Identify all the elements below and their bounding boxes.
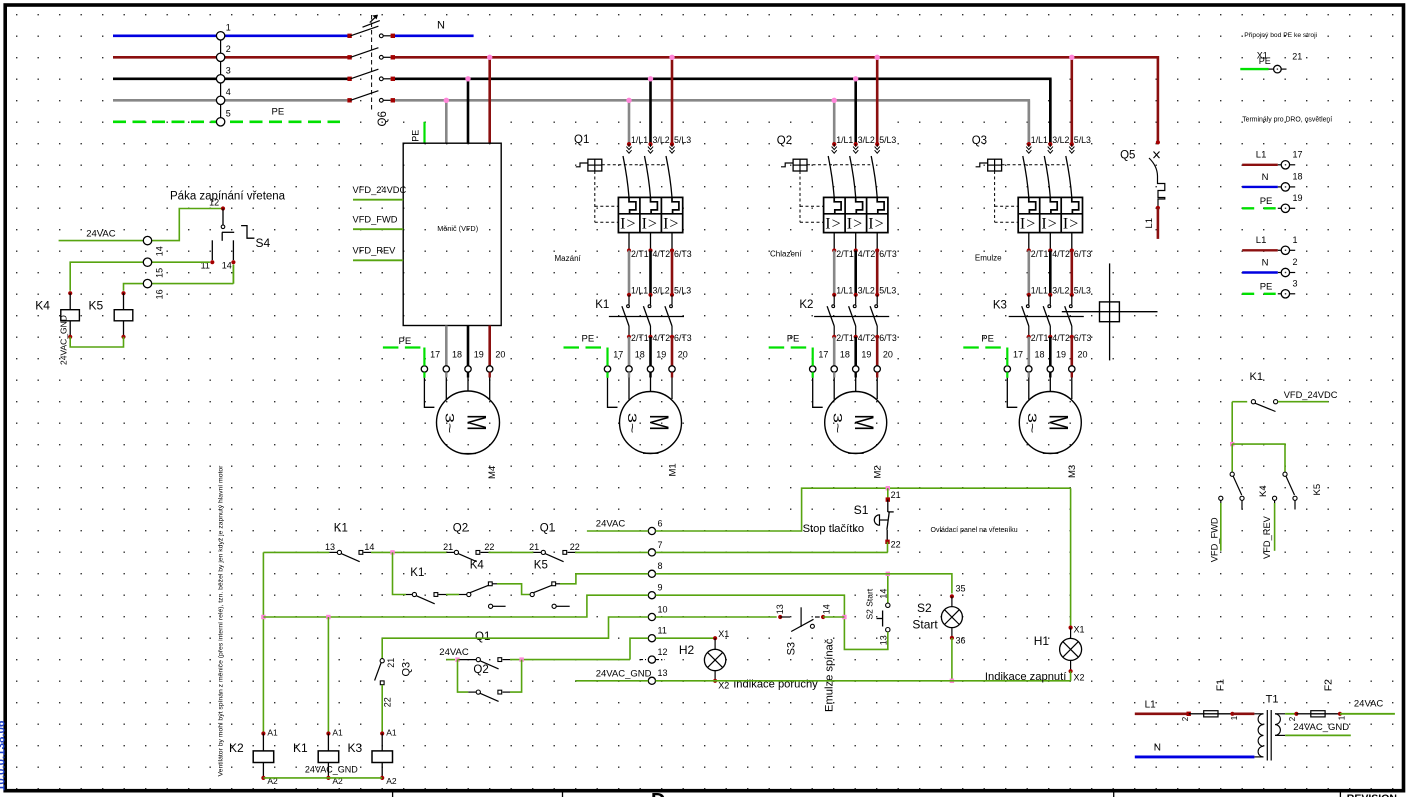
- svg-text:PE: PE: [411, 130, 421, 142]
- svg-text:14: 14: [154, 246, 164, 256]
- svg-text:24VAC_GND: 24VAC_GND: [1293, 722, 1349, 733]
- svg-text:H2: H2: [679, 643, 695, 657]
- svg-text:13: 13: [658, 668, 668, 678]
- svg-text:Páka zapínání vřetena: Páka zapínání vřetena: [170, 191, 286, 203]
- svg-text:Q2: Q2: [453, 523, 468, 535]
- svg-text:14: 14: [878, 589, 888, 599]
- svg-text:Q5: Q5: [1120, 150, 1135, 162]
- svg-text:F1: F1: [1215, 679, 1227, 691]
- svg-text:Q1: Q1: [540, 523, 555, 535]
- svg-text:K4: K4: [35, 299, 50, 313]
- svg-text:Mazání: Mazání: [555, 254, 582, 263]
- svg-text:24VAC_GND: 24VAC_GND: [596, 668, 652, 679]
- svg-text:N: N: [437, 20, 445, 32]
- svg-text:7: 7: [658, 540, 663, 550]
- svg-text:REVISION: REVISION: [1347, 793, 1397, 797]
- svg-text:VFD_REV: VFD_REV: [1262, 515, 1272, 559]
- svg-text:VFD_FWD: VFD_FWD: [1210, 517, 1220, 562]
- svg-text:L1: L1: [1256, 150, 1267, 161]
- svg-text:M2: M2: [873, 465, 884, 478]
- svg-text:PE: PE: [1260, 281, 1273, 292]
- svg-text:T1: T1: [1266, 694, 1279, 706]
- svg-text:K5: K5: [89, 299, 104, 313]
- svg-text:35: 35: [956, 584, 966, 594]
- svg-text:PE: PE: [399, 336, 412, 347]
- svg-text:K3: K3: [348, 741, 363, 755]
- svg-text:Start: Start: [912, 617, 938, 631]
- svg-text:24VAC: 24VAC: [596, 518, 626, 529]
- svg-text:Emulze spínač: Emulze spínač: [824, 638, 836, 712]
- svg-text:4: 4: [226, 87, 231, 97]
- svg-text:13: 13: [325, 542, 335, 552]
- svg-text:14: 14: [822, 604, 832, 614]
- svg-text:Q6: Q6: [377, 111, 389, 126]
- svg-text:1: 1: [1293, 235, 1298, 245]
- svg-text:K3: K3: [993, 300, 1007, 312]
- svg-text:22: 22: [383, 697, 393, 707]
- svg-text:11: 11: [658, 626, 667, 636]
- svg-text:1: 1: [226, 23, 231, 33]
- svg-text:S2: S2: [917, 601, 932, 615]
- svg-text:N: N: [1262, 257, 1269, 268]
- svg-text:M3: M3: [1067, 465, 1078, 478]
- svg-text:2: 2: [1293, 257, 1298, 267]
- svg-text:10.0.0.138.06: 10.0.0.138.06: [0, 721, 7, 791]
- svg-text:Q1: Q1: [475, 631, 490, 643]
- svg-text:1: 1: [1230, 715, 1239, 720]
- svg-text:S2 Start: S2 Start: [865, 588, 875, 619]
- svg-text:22: 22: [891, 540, 901, 550]
- svg-text:K2: K2: [229, 741, 244, 755]
- svg-text:17: 17: [1293, 150, 1303, 160]
- svg-text:Chlazení: Chlazení: [770, 250, 802, 259]
- svg-text:18: 18: [1293, 172, 1303, 182]
- svg-text:21: 21: [891, 490, 901, 500]
- svg-text:A1: A1: [267, 728, 278, 738]
- svg-text:9: 9: [658, 583, 663, 593]
- svg-text:S4: S4: [256, 236, 271, 250]
- svg-text:21: 21: [386, 658, 396, 668]
- svg-text:24VAC: 24VAC: [1354, 699, 1384, 710]
- svg-text:VFD_24VDC: VFD_24VDC: [1284, 390, 1338, 400]
- svg-text:Terminály pro DRO, osvětlení: Terminály pro DRO, osvětlení: [1242, 117, 1332, 124]
- svg-text:L1: L1: [1256, 235, 1267, 246]
- svg-text:M4: M4: [487, 466, 498, 479]
- svg-text:19: 19: [1293, 193, 1303, 203]
- svg-text:F2: F2: [1322, 679, 1334, 691]
- svg-text:Emulze: Emulze: [975, 254, 1002, 263]
- svg-text:M: M: [461, 414, 491, 431]
- svg-text:12: 12: [209, 198, 219, 208]
- svg-text:K2: K2: [799, 299, 813, 311]
- svg-text:K1: K1: [293, 741, 308, 755]
- svg-text:L1: L1: [1144, 218, 1155, 229]
- svg-text:M1: M1: [667, 463, 678, 476]
- svg-text:Měnič (VFD): Měnič (VFD): [437, 224, 478, 233]
- svg-text:K5: K5: [1312, 484, 1323, 496]
- svg-text:8: 8: [658, 561, 663, 571]
- svg-text:18: 18: [452, 350, 462, 360]
- svg-text:K4: K4: [1258, 485, 1269, 497]
- svg-text:K1: K1: [595, 299, 609, 311]
- svg-text:H1: H1: [1034, 634, 1050, 648]
- svg-text:21: 21: [1292, 52, 1302, 62]
- svg-text:21: 21: [443, 542, 453, 552]
- svg-text:N: N: [1154, 743, 1161, 754]
- svg-text:X1: X1: [1074, 624, 1085, 634]
- svg-text:PE: PE: [272, 107, 285, 118]
- svg-text:X2: X2: [718, 681, 729, 691]
- svg-text:A2: A2: [386, 776, 397, 786]
- svg-text:Q2: Q2: [777, 135, 792, 147]
- svg-text:22: 22: [570, 542, 580, 552]
- svg-text:10: 10: [658, 604, 668, 614]
- svg-text:N: N: [1262, 172, 1269, 183]
- svg-text:A1: A1: [386, 728, 397, 738]
- svg-text:VFD_REV: VFD_REV: [353, 246, 397, 256]
- svg-text:A1: A1: [332, 728, 343, 738]
- svg-text:Q3: Q3: [972, 135, 987, 147]
- svg-text:2: 2: [226, 44, 231, 54]
- svg-text:24VAC_GND: 24VAC_GND: [59, 315, 69, 365]
- svg-text:24VAC: 24VAC: [86, 229, 116, 240]
- svg-text:Ovládací panel na vřeteníku: Ovládací panel na vřeteníku: [931, 527, 1018, 534]
- svg-text:3: 3: [226, 66, 231, 76]
- svg-text:13: 13: [878, 635, 888, 645]
- svg-text:17: 17: [430, 350, 440, 360]
- svg-text:K1: K1: [410, 567, 424, 579]
- svg-text:K4: K4: [470, 560, 485, 572]
- svg-text:3: 3: [1293, 279, 1298, 289]
- svg-text:K5: K5: [534, 560, 548, 572]
- svg-text:2: 2: [1288, 716, 1297, 721]
- svg-text:S1: S1: [854, 503, 869, 517]
- svg-text:Připojný bod PE ke stroji: Připojný bod PE ke stroji: [1244, 32, 1317, 39]
- svg-text:X1: X1: [718, 629, 729, 639]
- svg-text:Indikace zapnutí: Indikace zapnutí: [985, 671, 1067, 683]
- svg-text:S3: S3: [786, 642, 798, 655]
- svg-text:3~: 3~: [443, 413, 457, 434]
- svg-text:20: 20: [495, 350, 505, 360]
- svg-text:21: 21: [529, 542, 539, 552]
- svg-text:Stop tlačítko: Stop tlačítko: [803, 523, 865, 535]
- svg-text:5: 5: [226, 109, 231, 119]
- svg-text:6: 6: [658, 518, 663, 528]
- svg-text:14: 14: [222, 261, 232, 271]
- svg-text:Q2: Q2: [473, 664, 488, 676]
- svg-text:1: 1: [1338, 715, 1347, 720]
- svg-text:2: 2: [1181, 716, 1190, 721]
- svg-text:L1: L1: [1145, 700, 1157, 711]
- svg-text:Q1: Q1: [574, 134, 589, 146]
- svg-text:X2: X2: [1074, 672, 1085, 682]
- svg-text:Q3: Q3: [401, 662, 413, 677]
- svg-text:K1: K1: [1250, 371, 1263, 383]
- svg-text:24VAC: 24VAC: [439, 647, 469, 658]
- svg-text:12: 12: [658, 647, 668, 657]
- svg-text:VFD_FWD: VFD_FWD: [353, 215, 398, 225]
- svg-text:19: 19: [474, 350, 484, 360]
- svg-text:24VAC_GND: 24VAC_GND: [305, 764, 358, 774]
- svg-text:15: 15: [154, 268, 164, 278]
- svg-text:PE: PE: [1259, 56, 1271, 66]
- svg-text:VFD_24VDC: VFD_24VDC: [353, 185, 407, 195]
- svg-text:13: 13: [775, 604, 785, 614]
- svg-text:14: 14: [364, 542, 374, 552]
- svg-text:Ventilátor by mohl být spínán: Ventilátor by mohl být spínán z měniče (…: [218, 465, 225, 777]
- svg-text:PE: PE: [1260, 196, 1273, 207]
- svg-text:36: 36: [956, 636, 966, 646]
- svg-text:K1: K1: [334, 523, 348, 535]
- svg-text:22: 22: [484, 542, 494, 552]
- svg-text:16: 16: [154, 289, 164, 299]
- svg-text:D: D: [651, 790, 665, 797]
